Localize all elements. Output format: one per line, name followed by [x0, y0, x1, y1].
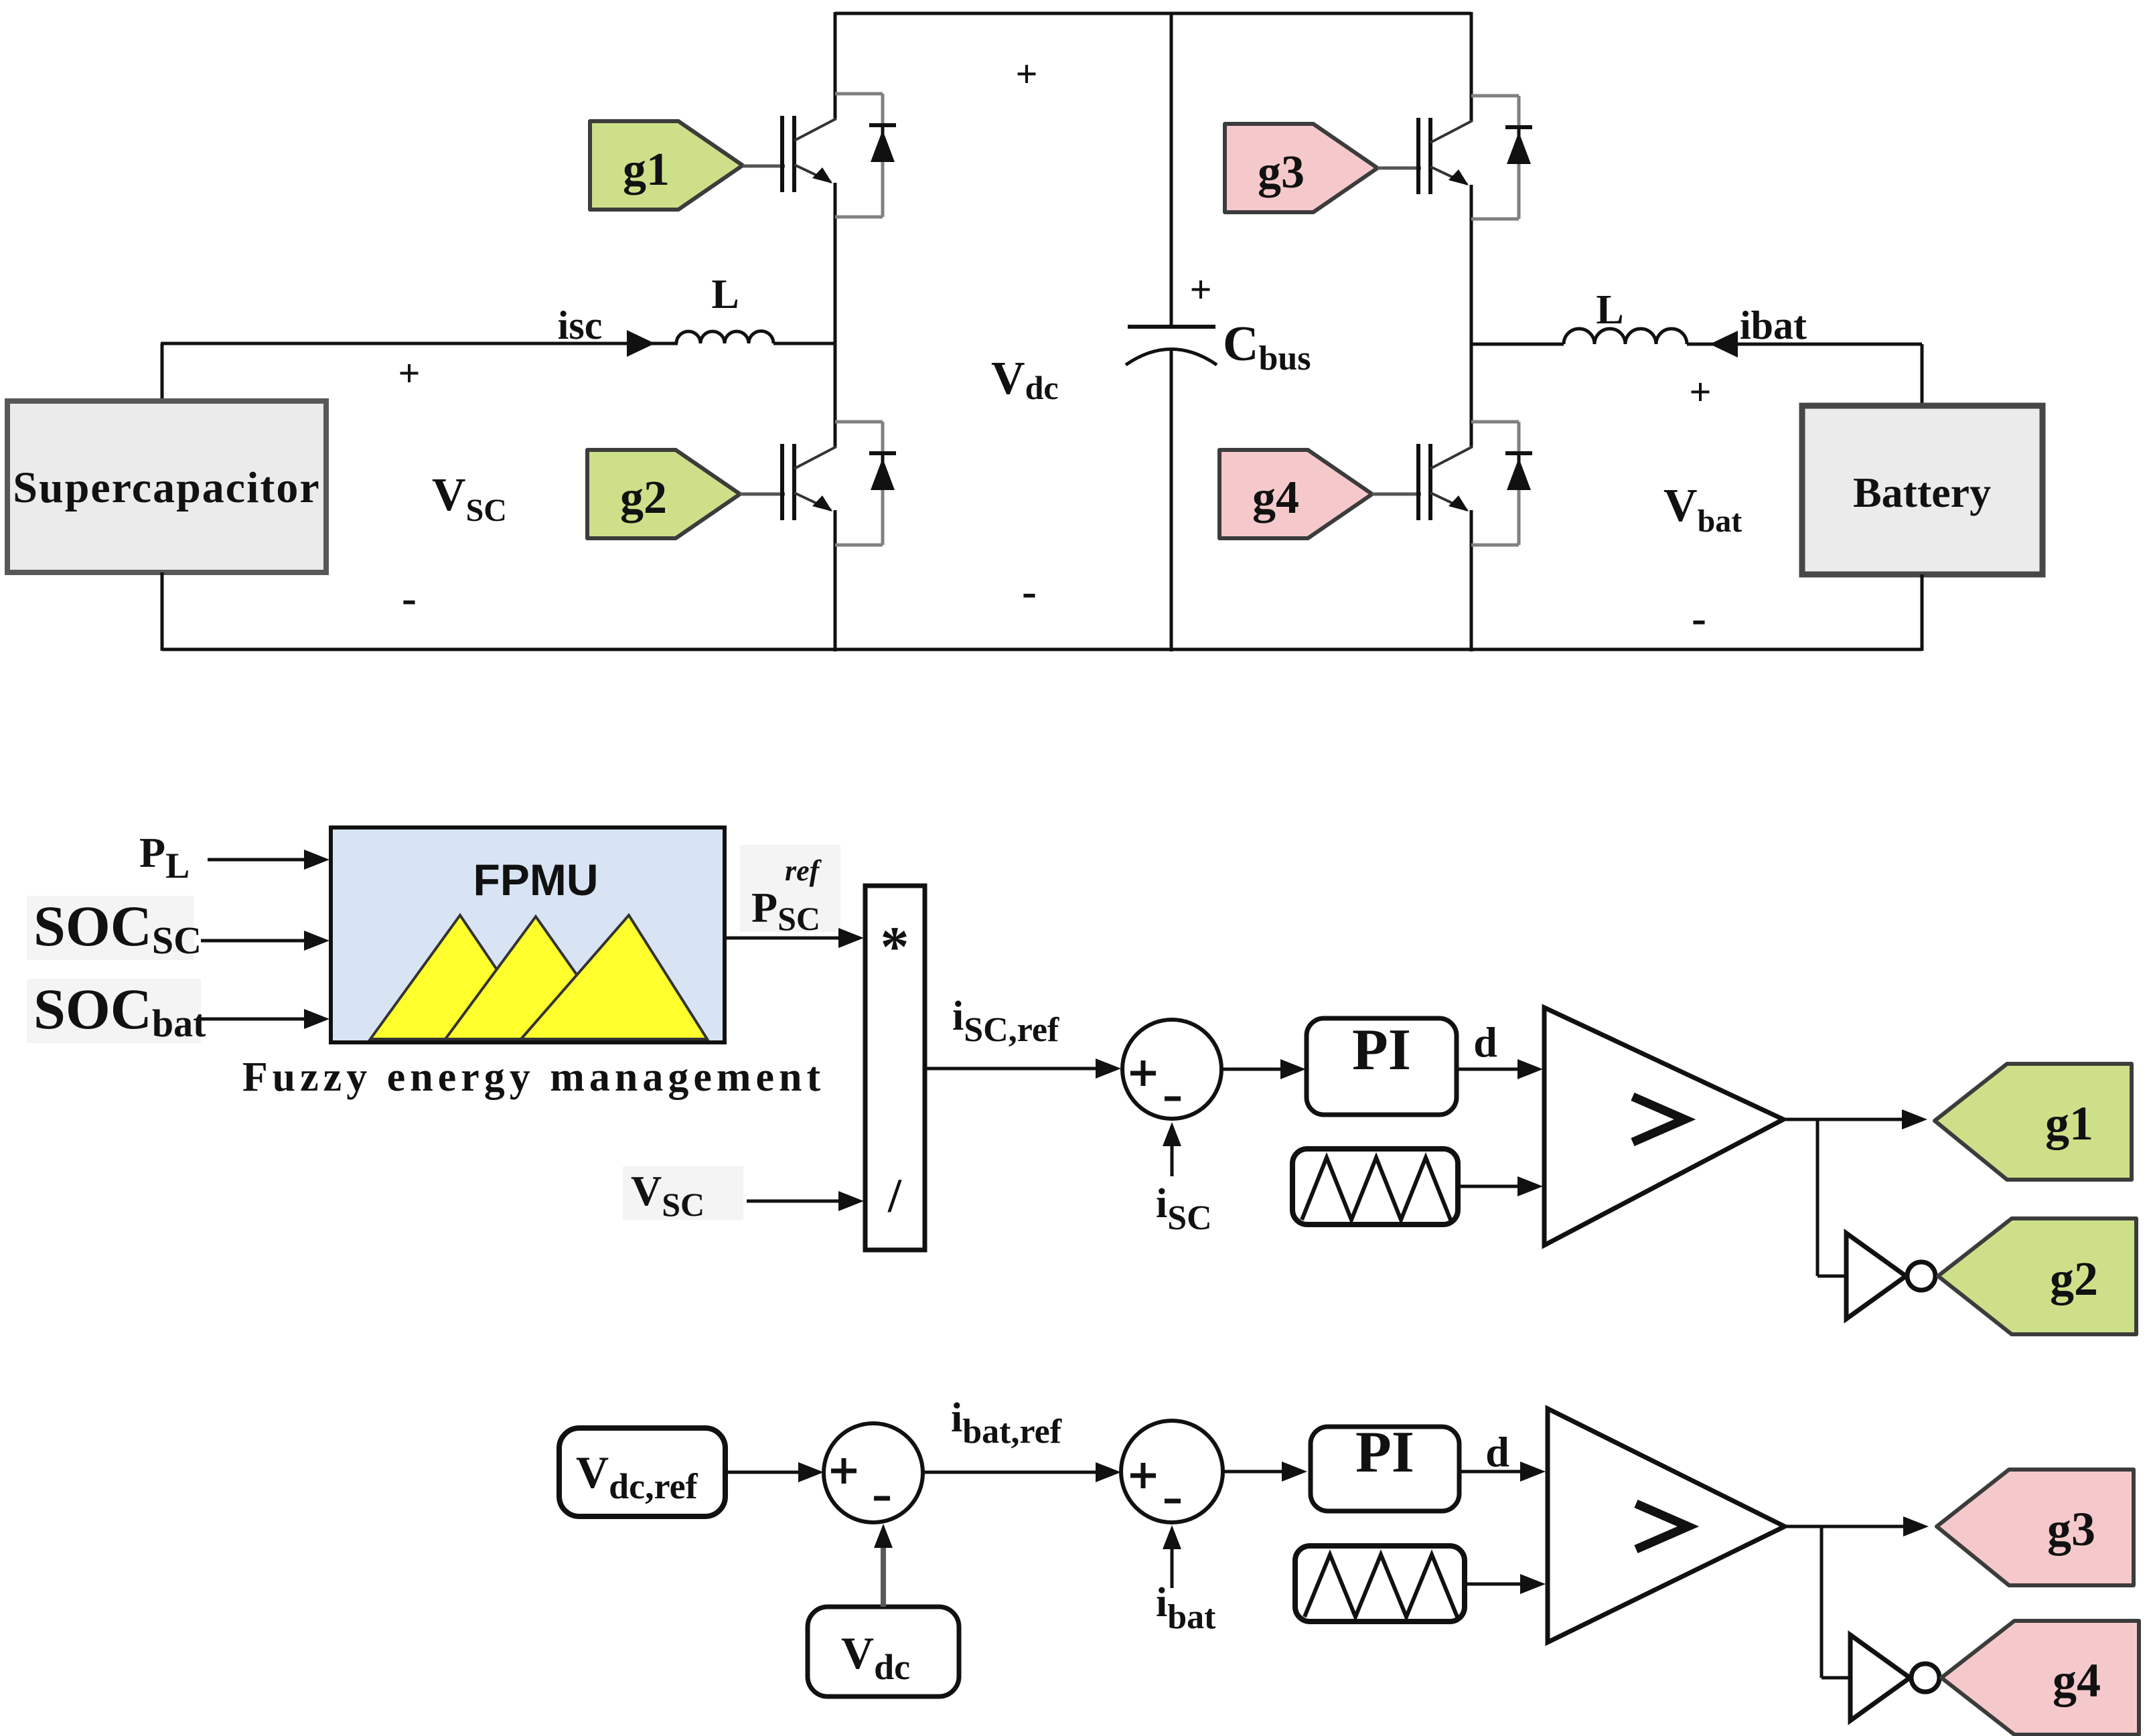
wire Psc ref arrow (FPMU to multiplier): [725, 928, 864, 948]
diode D3 (freewheel across Q3): [1471, 96, 1532, 219]
svg-text:Cbus: Cbus: [1223, 317, 1311, 378]
svg-text:ref: ref: [785, 854, 822, 887]
diode D1 (freewheel across Q1): [835, 94, 896, 217]
output flag g4: [1941, 1621, 2139, 1735]
diode D2 (freewheel across Q2): [835, 422, 896, 545]
transistor Q4 (IGBT lower-right): [1418, 444, 1473, 520]
label Psc ref output: [740, 845, 840, 937]
wire left leg lower segment: [834, 510, 837, 651]
svg-text:g2: g2: [620, 472, 667, 524]
inverter (NOT gate) 1: [1846, 1233, 1935, 1319]
wire battery negative lead: [1921, 574, 1924, 651]
membership triangle 2: [445, 917, 622, 1039]
label Cbus: [1223, 317, 1311, 378]
comparator 2: [1548, 1409, 1785, 1642]
wire middle leg lower (Cbus to bottom bus): [1170, 348, 1173, 651]
svg-text:g4: g4: [1252, 472, 1299, 524]
wire Vdcref to S2: [725, 1462, 824, 1482]
svg-text:FPMU: FPMU: [473, 855, 599, 904]
arrowhead ibat current direction: [1710, 331, 1738, 358]
label + (Vdc top): [1015, 52, 1037, 96]
label isc_ref: [952, 994, 1059, 1049]
output flag g2: [1938, 1218, 2136, 1334]
capacitor Cbus symbol: [1126, 327, 1217, 365]
block Vdc feedback: [808, 1607, 959, 1696]
wire bottom bus: [162, 648, 1922, 651]
wire g4 gate lead: [1372, 493, 1421, 496]
svg-text:*: *: [881, 915, 909, 979]
wire ibat feedback arrow: [1163, 1525, 1181, 1588]
wire branch to inverter 1: [1817, 1119, 1846, 1276]
inverter (NOT gate) 2: [1850, 1635, 1939, 1721]
svg-text:Vbat: Vbat: [1663, 480, 1742, 539]
label d (duty cycle 2): [1485, 1428, 1509, 1476]
svg-text:ibat,ref: ibat,ref: [951, 1395, 1062, 1451]
label - (Vdc bottom): [1022, 567, 1037, 616]
gate flag g4: [1219, 450, 1372, 538]
inductor L (supercapacitor side): [676, 331, 835, 343]
comparator 1: [1544, 1008, 1783, 1245]
summing junction S3: [1121, 1421, 1223, 1522]
label isc feedback: [1156, 1181, 1212, 1237]
label - (Vsc polarity): [402, 574, 417, 623]
block Vdc_ref: [559, 1428, 725, 1516]
svg-text:ibat: ibat: [1156, 1580, 1216, 1636]
wire Vsc arrow (to divider): [747, 1191, 864, 1211]
label - (Vbat polarity): [1692, 594, 1706, 643]
gate flag g2: [587, 450, 740, 538]
transistor Q2 (IGBT lower-left): [782, 444, 836, 520]
svg-text:Vdc: Vdc: [991, 353, 1059, 406]
wire S3 to PI2: [1223, 1462, 1307, 1482]
svg-text:g3: g3: [1258, 147, 1305, 198]
svg-text:PI: PI: [1355, 1420, 1414, 1485]
wire PL input arrow: [208, 850, 329, 870]
svg-text:PI: PI: [1352, 1018, 1411, 1083]
block PI controller 2: [1311, 1420, 1459, 1511]
wire PI2 to comparator: [1459, 1462, 1546, 1482]
block multiply-divide: [865, 886, 925, 1250]
svg-text:ibat: ibat: [1740, 303, 1807, 347]
label Vsc input (control): [623, 1166, 743, 1223]
wire left leg middle segment (node isc): [834, 183, 837, 447]
wire right leg middle segment (node ibat): [1470, 185, 1473, 447]
svg-text:L: L: [711, 272, 739, 317]
svg-text:iSC: iSC: [1156, 1181, 1212, 1237]
label SOCsc input: [27, 894, 202, 962]
svg-text:iSC,ref: iSC,ref: [952, 994, 1059, 1049]
svg-text:L: L: [1596, 287, 1623, 333]
membership triangle 1: [370, 915, 544, 1039]
wire carrier2 to comparator: [1465, 1574, 1546, 1594]
gate flag g3: [1225, 124, 1378, 212]
label + (Cbus polarity): [1189, 268, 1211, 311]
label Vsc: [432, 469, 507, 528]
block PI controller 1: [1307, 1018, 1457, 1115]
output flag g1: [1935, 1064, 2132, 1180]
wire g2 gate lead: [740, 493, 785, 496]
label isc: [558, 303, 603, 347]
wire top DC bus: [835, 12, 1471, 15]
transistor Q1 (IGBT upper-left): [782, 116, 836, 192]
svg-text:g2: g2: [2050, 1252, 2098, 1306]
summing junction S2: [824, 1423, 923, 1522]
wire g1 gate lead: [743, 165, 785, 168]
wire supercapacitor negative lead: [161, 572, 164, 651]
wire comparator2 output to g3: [1785, 1516, 1929, 1536]
wire isc_ref (divider to summer): [925, 1058, 1121, 1079]
wire supercapacitor positive lead: [161, 343, 678, 402]
svg-text:d: d: [1485, 1428, 1509, 1476]
wire middle leg upper (DC bus to Cbus): [1170, 12, 1173, 327]
wire ibat_ref (S2 to S3): [923, 1462, 1121, 1482]
label + (Vsc polarity): [398, 351, 420, 395]
svg-text:g4: g4: [2053, 1654, 2101, 1707]
label SOCbat input: [27, 977, 206, 1045]
wire battery positive lead: [1471, 344, 1922, 406]
box Battery: [1802, 406, 2043, 574]
svg-text:isc: isc: [558, 303, 603, 347]
label PL input: [139, 829, 190, 886]
transistor Q3 (IGBT upper-right): [1418, 118, 1473, 194]
label L (left inductor): [711, 272, 739, 317]
diode D4 (freewheel across Q4): [1471, 422, 1532, 545]
wire left leg upper segment: [834, 12, 837, 119]
svg-text:g3: g3: [2047, 1502, 2095, 1556]
svg-text:Battery: Battery: [1853, 469, 1991, 516]
svg-text:+: +: [1015, 52, 1037, 96]
svg-text:g1: g1: [623, 144, 670, 195]
block carrier wave generator 1: [1292, 1149, 1458, 1225]
label Fuzzy energy management: [242, 1054, 825, 1100]
label ibat_ref: [951, 1395, 1062, 1451]
wire isc feedback arrow: [1163, 1122, 1181, 1176]
label d (duty cycle 1): [1473, 1018, 1497, 1066]
label Vbat: [1663, 480, 1742, 539]
wire right leg lower segment: [1470, 510, 1473, 651]
gate flag g1: [590, 121, 743, 210]
output flag g3: [1937, 1470, 2134, 1585]
wire SOCbat input arrow: [201, 1009, 329, 1029]
svg-text:PL: PL: [139, 829, 190, 886]
wire comparator1 output to g1: [1783, 1109, 1927, 1129]
block carrier wave generator 2: [1295, 1546, 1465, 1622]
wire branch to inverter 2: [1822, 1526, 1850, 1678]
block FPMU (fuzzy power management unit): [331, 827, 725, 1042]
svg-text:d: d: [1473, 1018, 1497, 1066]
label FPMU: [473, 855, 599, 904]
wire Vdc to S2 arrow: [874, 1524, 893, 1607]
wire S1 to PI1: [1221, 1059, 1306, 1079]
svg-text:Fuzzy energy management: Fuzzy energy management: [242, 1054, 825, 1100]
label Vdc: [991, 353, 1059, 406]
label ibat: [1740, 303, 1807, 347]
svg-text:-: -: [402, 574, 417, 623]
wire right leg upper segment: [1470, 12, 1473, 121]
svg-text:-: -: [1692, 594, 1706, 643]
svg-text:-: -: [1022, 567, 1037, 616]
svg-text:Supercapacitor: Supercapacitor: [13, 463, 320, 512]
wire PI1 to comparator: [1457, 1059, 1543, 1079]
label ibat feedback: [1156, 1580, 1216, 1636]
svg-text:+: +: [398, 351, 420, 395]
label L (right inductor): [1596, 287, 1623, 333]
summing junction S1: [1122, 1020, 1221, 1119]
svg-text:VSC: VSC: [432, 469, 507, 528]
svg-text:/: /: [887, 1169, 902, 1222]
membership triangle 3: [521, 915, 707, 1039]
inductor L (battery side): [1564, 329, 1922, 344]
label + (Vbat polarity): [1689, 370, 1711, 414]
svg-text:+: +: [1689, 370, 1711, 414]
wire SOCsc input arrow: [201, 931, 329, 951]
wire g3 gate lead: [1378, 167, 1421, 170]
svg-text:+: +: [1189, 268, 1211, 311]
box Supercapacitor: [7, 401, 326, 572]
svg-text:g1: g1: [2045, 1097, 2093, 1150]
arrowhead isc current direction: [627, 330, 655, 357]
wire carrier to comparator: [1458, 1176, 1543, 1196]
